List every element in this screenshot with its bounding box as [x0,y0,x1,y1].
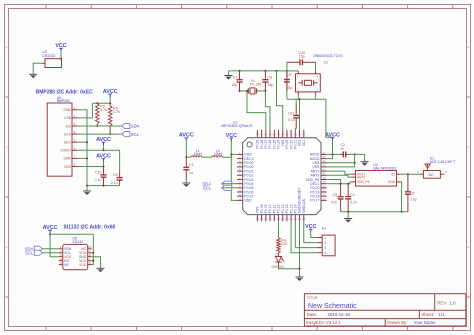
svg-text:C7: C7 [233,75,238,79]
port SDA (nRF51) [202,181,231,186]
svg-text:48: 48 [256,133,260,137]
power flag AVCC (nRF51) [179,133,194,158]
svg-text:2: 2 [324,241,326,245]
svg-text:P0.23: P0.23 [285,140,289,149]
junction R5/SDI [96,125,98,127]
svg-text:P0.12: P0.12 [277,204,281,213]
capacitor C8 15p [262,71,273,91]
wire balun output [401,173,420,175]
svg-text:22: 22 [294,217,298,221]
svg-text:C4: C4 [350,193,354,197]
wire SCL to P0.05 [222,187,237,189]
wire SWDCLK to P1 pin3 [295,221,317,247]
svg-text:P0.26: P0.26 [268,140,272,149]
svg-text:P0.08: P0.08 [260,204,264,213]
svg-text:SWDIO/nRESET: SWDIO/nRESET [298,188,302,214]
battery U3 CR2032 [41,50,61,67]
capacitor C9b 15p (TCXO) [284,71,292,91]
svg-text:P0.04: P0.04 [244,182,253,186]
svg-text:46: 46 [264,133,268,137]
svg-text:P0.27: P0.27 [264,140,268,149]
wire VSS top pin to ground rail [277,71,283,130]
power flag AVCC (SI1132) [43,225,58,234]
capacitor C4 2.2n [345,184,357,212]
svg-text:P0.01: P0.01 [244,169,253,173]
wire ANT2 to balun [327,175,352,177]
svg-text:ANT2: ANT2 [310,174,319,178]
power flag AVCC (VDDIO) [96,137,111,150]
ground (battery) [29,74,37,78]
svg-text:P0.21: P0.21 [294,140,298,149]
svg-text:Drawn By:: Drawn By: [387,320,407,325]
svg-text:P0.16: P0.16 [294,204,298,213]
svg-text:P0.17: P0.17 [310,199,319,203]
svg-text:13: 13 [256,217,260,221]
capacitor C2 1u [340,143,349,157]
svg-text:P0.11: P0.11 [273,205,277,214]
svg-text:SDI: SDI [65,124,71,128]
wire L2 to VDD pin [223,154,238,157]
ground (BMP280) [83,186,91,195]
resistor R6 4.7k [108,103,120,134]
wire VCC to P1 pin1 [311,232,317,237]
svg-text:Your Name: Your Name [414,320,436,325]
wire VDD pin9 [92,252,95,254]
svg-text:NC: NC [64,263,69,267]
svg-text:220: 220 [281,242,287,246]
svg-text:41: 41 [285,133,289,137]
ground (LED/P1) [296,269,304,281]
junction AVCC/L1/C1 [185,156,191,158]
wire VSS row3 [327,162,355,164]
svg-text:AVDD: AVDD [310,157,320,161]
svg-text:CSB: CSB [64,116,72,120]
wire VDDIO [78,149,120,172]
power flag AVCC (AVDD) [325,133,340,154]
wire crystal ground rail [229,70,288,72]
svg-text:4.7k: 4.7k [100,108,107,112]
svg-text:P0.30: P0.30 [244,161,253,165]
svg-text:C11: C11 [288,112,294,116]
svg-text:1.0: 1.0 [450,301,457,306]
capacitor C7 15p [232,71,243,91]
svg-text:3: 3 [324,246,326,250]
wire ANT1 to balun [327,171,352,174]
svg-text:15p: 15p [299,54,305,58]
svg-text:VDD: VDD [244,199,252,203]
svg-text:2016-12-16: 2016-12-16 [328,312,351,317]
title block [304,294,466,326]
capacitor C11 0.1u [288,99,299,128]
svg-text:40: 40 [290,133,294,137]
wire VDD_PA [327,180,341,184]
svg-text:VDD: VDD [64,255,72,259]
wire CSB to AVCC rail [78,103,93,118]
svg-text:S2: S2 [391,172,395,176]
svg-text:14: 14 [260,217,264,221]
svg-text:NC: NC [81,247,86,251]
wire XL2 to top pin 4 [265,91,270,130]
wire SDA [42,248,59,250]
svg-text:EasyEDA V3.12.1: EasyEDA V3.12.1 [306,320,341,325]
wire balun GND [401,182,402,212]
svg-text:F2: F2 [324,61,328,65]
svg-text:4: 4 [324,251,326,255]
svg-text:VDD: VDD [64,165,72,169]
svg-text:1/1: 1/1 [439,312,446,317]
svg-text:0.1u: 0.1u [111,181,118,185]
junction node battery + VCC [60,58,62,60]
capacitor C1 1u [183,157,193,180]
svg-text:P0.15: P0.15 [289,204,293,213]
section label BMP280 I2C [36,90,93,96]
crystal Y1 FC-135 [239,79,267,94]
wire AVDD row2 tie [327,154,333,158]
IC U5 SI1132 [59,237,92,270]
svg-text:VDD: VDD [79,263,87,267]
wire TCXO pin1 [287,70,298,72]
svg-text:1.0p: 1.0p [410,198,417,202]
svg-text:FC-135: FC-135 [250,82,261,86]
svg-text:SCL: SCL [131,132,140,137]
wire SDI to SDA port [78,125,122,127]
IC U6 BMP280 [47,96,78,176]
svg-text:P1: P1 [322,227,326,231]
svg-text:P0.05: P0.05 [244,186,253,190]
ground (AVDD) [361,162,369,166]
svg-text:VSS: VSS [312,165,320,169]
capacitor C5 47n [331,184,343,212]
svg-text:GND: GND [63,108,71,112]
svg-text:XC2: XC2 [298,140,302,147]
junction GND7 [78,157,88,159]
junction SDO [78,141,88,143]
svg-text:0.1u: 0.1u [95,178,102,182]
port SCL (SI1132) [25,250,42,255]
LED D1 GN920C [272,252,286,268]
svg-text:AVDD: AVDD [310,153,320,157]
svg-text:P0.02: P0.02 [244,174,253,178]
svg-text:SI1132 I2C Addr: 0x60: SI1132 I2C Addr: 0x60 [64,225,116,231]
svg-text:VSS: VSS [312,161,320,165]
svg-text:0.1u: 0.1u [288,118,295,122]
wire AVCC rail to right side [50,234,93,264]
power flag AVCC (BMP pullups) [103,89,118,104]
svg-text:P0.14: P0.14 [285,204,289,213]
svg-text:C9: C9 [113,173,118,177]
wire DEC1 [327,183,341,185]
svg-text:15p: 15p [286,86,292,90]
svg-text:P0.28: P0.28 [260,140,264,149]
wire VSS rows to ground node [327,154,356,167]
svg-text:C6: C6 [410,191,414,195]
svg-text:P0.22: P0.22 [289,140,293,149]
svg-text:P0.24: P0.24 [277,140,281,149]
wire AVCC rail [92,102,111,104]
svg-text:2.2n: 2.2n [350,200,357,204]
wire GND1/SDO/GND7 to ground rail [78,110,87,186]
ground (balun rail) [344,212,352,223]
svg-text:SDA: SDA [64,247,72,251]
svg-text:P0.10: P0.10 [268,204,272,213]
svg-text:37: 37 [302,133,306,137]
wire LED to ground [279,265,300,269]
svg-text:INT: INT [64,259,69,263]
capacitor C10b 15p (TCXO) [287,51,316,65]
svg-text:44: 44 [273,133,277,137]
balun U4 BAL-NRF01D3 [352,163,401,186]
wire TCXO vcc left vertical [286,62,288,99]
svg-text:VDDIO: VDDIO [60,149,71,153]
svg-text:DEC1: DEC1 [310,182,319,186]
svg-text:P0.13: P0.13 [281,204,285,213]
power flag VCC (nRF51) [226,133,237,155]
port SDA (BMP280) [122,123,140,128]
svg-text:P0.18: P0.18 [310,195,319,199]
wire rail to AVCC [326,99,333,137]
svg-text:Date:: Date: [307,312,318,317]
svg-text:BAL-NRF01D3: BAL-NRF01D3 [373,166,396,170]
wire VDD pin7 [92,260,95,262]
ground (SI1132) [97,268,105,272]
svg-text:VSS: VSS [281,139,285,147]
svg-text:SCL: SCL [25,250,34,255]
svg-text:VDD_P6: VDD_P6 [357,180,370,184]
svg-text:1u: 1u [341,147,345,151]
svg-text:nRF51802-QFAA-R: nRF51802-QFAA-R [221,124,253,128]
svg-text:15p: 15p [232,83,238,87]
capacitor C10 0.1u [95,167,107,186]
svg-text:47n: 47n [331,200,337,204]
port SCL (BMP280) [122,132,140,137]
section label SI1132 I2C [64,225,116,231]
svg-text:18: 18 [277,217,281,221]
wire SDA to P0.04 [222,183,237,185]
wire GND pin8 to ground [92,257,101,269]
svg-text:GND: GND [63,157,71,161]
svg-text:C8: C8 [267,75,272,79]
svg-text:17: 17 [273,217,277,221]
svg-text:New Schematic: New Schematic [308,303,357,310]
junction R6/SCK [109,133,111,135]
svg-text:C5: C5 [333,193,337,197]
svg-text:43: 43 [277,133,281,137]
svg-text:7M06000026-TCXO: 7M06000026-TCXO [313,54,344,58]
wire P1 pin4 [291,221,317,252]
junction VCC/VDD [230,153,232,155]
svg-text:SCL: SCL [64,251,71,255]
inductor L2 10uH [212,149,223,157]
capacitor C6 1.0p [405,174,417,212]
wire AVDD row1 [327,153,340,155]
port SDA (SI1132) [25,246,43,251]
wire TCXO bottom rail [287,98,326,100]
inductor L1 15uH [191,149,203,157]
svg-text:P0.03: P0.03 [244,178,253,182]
svg-text:GND: GND [388,180,396,184]
svg-text:15p: 15p [267,83,273,87]
ground rail (balun) [341,211,408,213]
wire DEC1 node to balun VDD_P6 [340,182,352,185]
power flag VCC (battery) [55,43,66,59]
power flag VCC (P1) [305,224,316,232]
svg-text:42: 42 [281,133,285,137]
svg-text:TITLE:: TITLE: [307,296,318,300]
antenna E1 ANT-2.45-CHP-T [417,157,456,179]
svg-text:10: 10 [88,245,92,249]
svg-text:24: 24 [302,217,306,221]
svg-text:VDD: VDD [79,259,87,263]
wire VCC to VDD pin12 [231,154,237,200]
svg-text:4.7k: 4.7k [113,110,120,114]
capacitor C9 0.1u [111,172,123,186]
svg-text:ANT2: ANT2 [357,175,365,179]
svg-text:19: 19 [281,217,285,221]
wire SCK to SCL port [78,133,122,135]
ground (C1) [182,180,190,187]
wire SWDIO to P1 pin2 [304,221,317,242]
resistor R4 220 [277,238,288,254]
ground (crystal rail) [225,71,233,80]
svg-text:VSS: VSS [256,206,260,214]
svg-text:47: 47 [260,133,264,137]
wire XL1 to top pin 3 [246,90,266,130]
svg-text:P0.00: P0.00 [244,165,253,169]
power flag AVCC (VDD) [96,154,111,167]
wire AVCC to VDD pin3 [49,233,59,257]
svg-text:ANT-2.45-CHP-T: ANT-2.45-CHP-T [430,160,456,164]
svg-text:P0.06: P0.06 [244,190,253,194]
wire TCXO pins2,3 to rail [298,95,315,100]
svg-text:SCK: SCK [64,132,72,136]
wire C2 to ground [349,153,365,161]
svg-text:REV:: REV: [437,301,447,306]
wire battery to ground [33,63,41,74]
svg-text:39: 39 [294,133,298,137]
svg-text:VDD: VDD [244,153,252,157]
svg-text:SDO: SDO [64,141,72,145]
svg-text:P0.20: P0.20 [310,186,319,190]
svg-text:SCL: SCL [203,186,212,191]
MCU U1 nRF51802-QFAA-R [221,120,327,221]
svg-text:20: 20 [285,217,289,221]
svg-text:P0.09: P0.09 [264,204,268,213]
svg-text:1u: 1u [189,171,193,175]
svg-text:SI1132: SI1132 [73,240,84,244]
svg-text:CR2032: CR2032 [42,54,55,58]
svg-text:XC1: XC1 [302,140,306,147]
svg-text:P0.25: P0.25 [273,140,277,149]
wire P0.12 to R4 [278,221,280,237]
svg-text:BMP280 I2C Addr: 0xEC: BMP280 I2C Addr: 0xEC [36,90,93,96]
wire VDD [78,166,105,168]
svg-text:1: 1 [324,236,326,240]
svg-text:VDD_PA: VDD_PA [306,178,320,182]
wire TCXO out to top pin 11 [299,98,301,130]
wire TCXO pin4 [315,62,317,71]
svg-text:SDA: SDA [131,124,140,129]
svg-text:DEC2: DEC2 [244,157,253,161]
svg-text:21: 21 [290,217,294,221]
header P1 [317,227,335,256]
svg-text:38: 38 [298,133,302,137]
svg-text:C9: C9 [286,73,290,77]
svg-text:16: 16 [268,217,272,221]
TCXO Y2 7M06000026-TCXO [296,54,344,94]
svg-text:P0.29: P0.29 [256,140,260,149]
svg-text:SWDCLK: SWDCLK [302,198,306,213]
svg-text:VDD: VDD [79,251,87,255]
svg-text:15: 15 [264,217,268,221]
svg-text:ANT1: ANT1 [310,169,319,173]
wire L1-L2 [202,156,212,158]
svg-text:C1: C1 [189,163,194,167]
svg-text:P0.19: P0.19 [310,190,319,194]
svg-text:NC: NC [429,173,435,177]
wire SCL [42,252,59,254]
ground rail BMP280 [86,185,120,187]
svg-text:23: 23 [298,217,302,221]
resistor R5 4.7k [96,103,108,126]
svg-text:GND: GND [79,255,87,259]
port SCL (nRF51) [203,185,232,190]
wire C11 to top pin 10 [294,129,297,130]
svg-text:P0.07: P0.07 [244,195,253,199]
svg-text:45: 45 [268,133,272,137]
svg-text:C10: C10 [95,171,102,175]
wire P0.16 to ground [299,221,301,269]
svg-text:Sheet:: Sheet: [422,312,435,317]
